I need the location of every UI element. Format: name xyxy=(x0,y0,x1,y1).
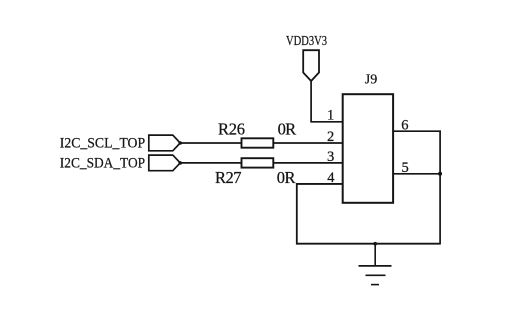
wire R27 to pin 3 xyxy=(273,162,343,164)
right rail wire xyxy=(439,130,441,243)
svg-text:0R: 0R xyxy=(278,120,297,139)
wire SDA flag to R27 xyxy=(180,162,242,164)
power symbol VDD3V3 xyxy=(303,50,319,81)
svg-text:1: 1 xyxy=(327,108,334,124)
wire pin 5 to right rail xyxy=(394,173,441,175)
wire SCL flag to R26 xyxy=(180,142,242,144)
svg-text:0R: 0R xyxy=(277,168,296,187)
resistor R26 xyxy=(242,138,274,147)
resistor R27 xyxy=(242,158,274,167)
wire pin 6 to right rail xyxy=(394,130,441,132)
svg-text:I2C_SCL_TOP: I2C_SCL_TOP xyxy=(60,136,145,152)
junction at SDA flag tip xyxy=(178,161,182,165)
ground symbol xyxy=(359,266,392,285)
junction at SCL flag tip xyxy=(178,141,182,145)
junction at ground tap xyxy=(373,242,377,246)
junction at pin 5 and right rail xyxy=(438,172,442,176)
svg-text:VDD3V3: VDD3V3 xyxy=(286,34,327,49)
port flag I2C_SDA_TOP xyxy=(149,155,180,171)
svg-text:R26: R26 xyxy=(218,120,245,139)
svg-text:I2C_SDA_TOP: I2C_SDA_TOP xyxy=(60,156,145,172)
svg-text:J9: J9 xyxy=(365,73,377,88)
wire R26 to pin 2 xyxy=(273,142,343,144)
port flag I2C_SCL_TOP xyxy=(149,135,180,151)
wire ground tap xyxy=(374,244,376,266)
connector J9 box xyxy=(343,94,393,203)
svg-text:R27: R27 xyxy=(215,168,242,187)
wire pin 4 left then down then right to bottom rail xyxy=(297,184,441,244)
wire VDD3V3 down and right to pin 1 xyxy=(311,81,343,122)
